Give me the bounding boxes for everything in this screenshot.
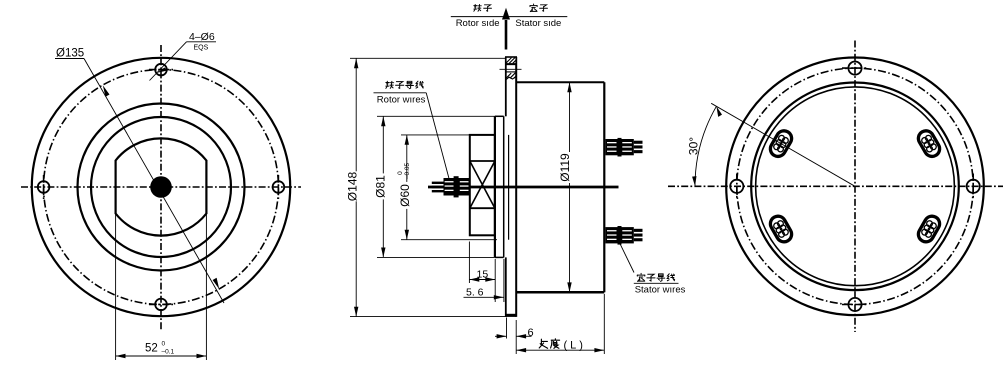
dim Ø60 0/-0.05	[401, 134, 470, 136]
svg-text:4–Ø6: 4–Ø6	[189, 31, 215, 43]
bolt circle Ø135 rear	[737, 68, 973, 304]
hole right rear	[967, 180, 980, 193]
CJK label rotor (zhuanzi)	[474, 4, 481, 11]
svg-text:EQS: EQS	[194, 45, 209, 52]
svg-text:Ø81: Ø81	[373, 175, 387, 198]
hole left	[38, 181, 50, 193]
svg-text:Rotor sıde: Rotor sıde	[456, 18, 500, 29]
CJK label stator (dingzi)	[530, 4, 537, 12]
rotor wires	[432, 176, 470, 197]
svg-text:0: 0	[397, 171, 404, 175]
flange bottom cap	[506, 314, 516, 317]
label stator wires	[620, 244, 634, 273]
dim Ø81	[377, 115, 495, 117]
dim 6 (flange thickness)	[506, 318, 508, 339]
hole right	[273, 181, 285, 193]
top indicator rotor/stator side	[451, 16, 568, 18]
flange top hatch + bolt hole section	[500, 57, 522, 80]
wire slot bottom-left	[768, 213, 795, 244]
svg-text:Rotor wıres: Rotor wıres	[377, 94, 426, 105]
circle Ø119 rear	[751, 83, 959, 291]
hole bottom	[155, 299, 167, 311]
outer circle Ø148 rear	[726, 58, 984, 316]
hole top	[155, 64, 167, 76]
wire slot top-right	[916, 128, 943, 159]
circle r83.5	[78, 104, 245, 271]
centerline horizontal left view	[21, 186, 301, 188]
centerline vertical right view	[854, 41, 856, 333]
dim 52 line	[116, 355, 207, 357]
inner line flange recess	[508, 135, 510, 240]
30 deg text	[687, 137, 701, 155]
svg-text:Ø119: Ø119	[558, 153, 572, 182]
svg-text:15: 15	[477, 269, 489, 281]
svg-text:Ø135: Ø135	[56, 48, 84, 60]
CJK label stator wires	[637, 273, 644, 281]
stator wires top	[606, 138, 643, 157]
CJK label length (changdu)	[539, 339, 547, 348]
centerline vertical left view	[160, 45, 162, 331]
X-column Ø60 hub	[470, 135, 495, 235]
svg-text:30°: 30°	[687, 137, 701, 155]
dim Ø119	[569, 82, 571, 292]
svg-text:(L): (L)	[564, 340, 586, 352]
dim L	[515, 320, 517, 354]
dim 15	[468, 242, 470, 284]
wire slot top-left	[768, 128, 795, 159]
svg-text:5. 6: 5. 6	[466, 286, 484, 298]
30 deg arc	[695, 106, 716, 186]
dim Ø135 leader	[84, 59, 224, 304]
centerline horizontal right view	[668, 185, 1003, 187]
D-shape Ø60 with flats (52)	[116, 138, 207, 235]
svg-text:0: 0	[162, 341, 166, 348]
svg-text:Stator sıde: Stator sıde	[515, 18, 561, 29]
inner ring	[756, 87, 955, 286]
circle r70 (Ø81)	[91, 117, 231, 257]
stator wires bottom	[606, 226, 643, 245]
bolt circle Ø135 dash-dot	[44, 70, 279, 305]
svg-text:–0.1: –0.1	[162, 349, 175, 356]
30 deg radial line	[711, 103, 855, 186]
svg-text:Ø60: Ø60	[398, 184, 412, 207]
svg-text:52: 52	[145, 343, 158, 355]
dim 52 extension lines	[115, 214, 117, 360]
hole bottom rear	[848, 298, 861, 311]
svg-text:Stator wıres: Stator wıres	[635, 285, 686, 296]
center shaft dot	[150, 176, 172, 198]
outer circle Ø148	[32, 58, 290, 316]
CJK label rotor wires	[386, 81, 394, 88]
svg-text:Ø148: Ø148	[345, 171, 359, 201]
disc Ø81	[494, 116, 496, 257]
label rotor wires	[374, 92, 427, 94]
svg-text:6: 6	[528, 327, 534, 339]
hole top rear	[848, 62, 861, 75]
stator body	[516, 81, 604, 83]
axis centerline	[428, 186, 619, 189]
dim 5.6	[503, 259, 505, 302]
wire slot bottom-right	[916, 213, 943, 244]
svg-text:–0.05: –0.05	[404, 162, 411, 179]
mounting flange Ø148	[505, 57, 507, 116]
hole left rear	[730, 180, 743, 193]
dim Ø148	[350, 57, 506, 59]
